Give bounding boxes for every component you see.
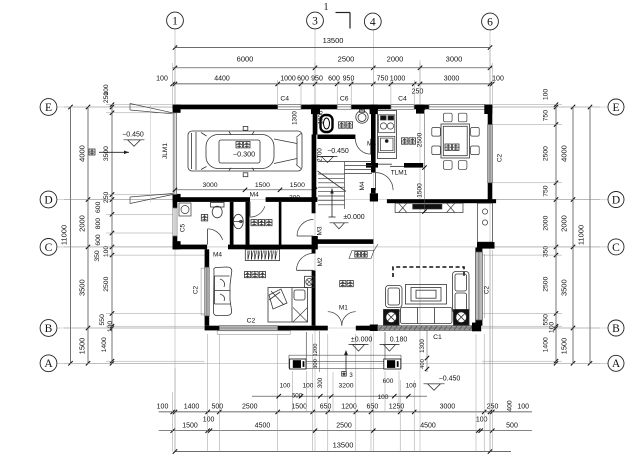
svg-text:C4: C4 [398, 95, 407, 102]
svg-text:2500: 2500 [336, 422, 352, 429]
window C4 kitchen north [391, 105, 414, 110]
wall C right chunk [477, 242, 495, 249]
porch extension verticals [292, 371, 399, 412]
garage interior dim 3000/1500/1500 [173, 182, 317, 201]
wall bedroom south B [205, 326, 317, 331]
svg-text:400: 400 [420, 359, 426, 369]
svg-text:3000: 3000 [446, 55, 463, 64]
svg-text:250: 250 [412, 89, 424, 96]
svg-text:750: 750 [543, 110, 550, 122]
wall garage south D [173, 197, 318, 202]
door M4 bath [208, 229, 223, 245]
sofa three-seat [398, 308, 455, 324]
svg-text:2000: 2000 [560, 215, 569, 232]
svg-text:100: 100 [157, 404, 169, 411]
svg-text:A: A [612, 358, 621, 370]
duct shaft east [478, 203, 493, 242]
svg-text:4: 4 [370, 16, 376, 28]
wall public WC south [317, 135, 355, 140]
svg-text:100: 100 [517, 404, 529, 411]
section mark 1 [324, 2, 351, 29]
label dining [445, 144, 451, 150]
coffee table [406, 285, 447, 305]
svg-text:2500: 2500 [103, 276, 110, 291]
wall bath east [230, 202, 234, 245]
right fine chain [543, 89, 559, 366]
svg-text:C4: C4 [280, 95, 289, 102]
svg-text:TLM1: TLM1 [391, 170, 408, 177]
porch side vertical dims [313, 330, 429, 372]
grid bubble 6 [482, 13, 499, 30]
window C5 [173, 208, 177, 236]
top fine dimension chain [156, 76, 504, 96]
porch arrow [342, 350, 354, 379]
toilet family bath [211, 203, 225, 218]
svg-text:±0.000: ±0.000 [343, 214, 364, 221]
grid axis lines [57, 29, 608, 451]
svg-text:−0.300: −0.300 [233, 150, 255, 159]
svg-text:550: 550 [99, 314, 106, 326]
grid bubble E right [608, 99, 624, 115]
svg-text:−0.450: −0.450 [439, 375, 461, 382]
svg-text:2500: 2500 [543, 276, 550, 291]
svg-text:1: 1 [172, 15, 178, 27]
svg-text:100: 100 [549, 322, 556, 334]
svg-text:500: 500 [506, 422, 518, 429]
basin lobby fixture [233, 214, 243, 228]
svg-text:100: 100 [103, 246, 110, 258]
svg-text:2700: 2700 [317, 148, 324, 162]
window C1 living south [378, 326, 472, 331]
svg-text:C6: C6 [340, 95, 349, 102]
svg-text:100: 100 [378, 394, 389, 401]
kitchen sink [379, 136, 395, 152]
top extension lines [173, 44, 493, 104]
svg-text:D: D [44, 194, 52, 206]
window C2 bedroom west [205, 267, 210, 316]
stairs [318, 162, 373, 210]
svg-text:100: 100 [303, 383, 314, 390]
dimension 11000 left [60, 105, 73, 366]
svg-text:650: 650 [367, 404, 379, 411]
svg-text:100: 100 [406, 383, 417, 390]
svg-text:100: 100 [543, 89, 550, 101]
svg-text:2000: 2000 [387, 55, 404, 64]
label garage [236, 142, 242, 148]
svg-text:13500: 13500 [323, 36, 344, 45]
svg-text:4500: 4500 [255, 422, 271, 429]
svg-text:100: 100 [476, 417, 488, 424]
svg-text:4000: 4000 [78, 145, 87, 162]
dimension 13500 top [173, 36, 492, 50]
wall living east [475, 248, 482, 326]
svg-text:C2: C2 [193, 285, 200, 294]
curtain wall [317, 239, 373, 244]
svg-text:400: 400 [507, 400, 514, 412]
svg-text:750: 750 [543, 185, 550, 197]
svg-text:1400: 1400 [184, 404, 200, 411]
wall kitchen west [370, 105, 378, 202]
window C2 dining east [488, 125, 493, 183]
wall dining east [488, 105, 493, 200]
svg-text:250: 250 [103, 192, 110, 204]
wall west garage [173, 105, 181, 250]
round basin public WC [356, 110, 368, 124]
door M1 entry [328, 312, 356, 326]
svg-text:3000: 3000 [202, 182, 217, 189]
svg-text:−0.450: −0.450 [122, 131, 144, 138]
svg-text:1500: 1500 [417, 183, 424, 198]
svg-text:±0.000: ±0.000 [351, 336, 372, 343]
svg-text:C2: C2 [484, 285, 491, 294]
dimension 13500 bottom [173, 441, 511, 454]
level -0.450 stairhall [318, 148, 349, 163]
planter bay south of dining [395, 203, 463, 212]
window C2 living east [475, 252, 484, 320]
svg-text:800: 800 [95, 218, 102, 230]
svg-text:950: 950 [343, 76, 355, 83]
right extension lines [482, 105, 600, 364]
grid bubble 4 [364, 13, 381, 30]
svg-text:3: 3 [312, 15, 318, 27]
svg-text:C: C [612, 242, 620, 254]
svg-text:500: 500 [211, 404, 223, 411]
grid bubble D left [40, 191, 57, 208]
plant stand right [454, 310, 470, 326]
dining interior dims 2500/1500 [417, 107, 427, 214]
label public WC [339, 122, 345, 128]
label bath [201, 215, 207, 221]
svg-text:750: 750 [377, 76, 389, 83]
wall grid3 vertical [312, 105, 318, 202]
svg-text:100: 100 [156, 76, 168, 83]
sill west [201, 268, 205, 315]
driveway ramp [130, 104, 173, 204]
garage door JLM1 [173, 113, 176, 195]
svg-text:1250: 1250 [389, 404, 405, 411]
porch mini dims [252, 377, 427, 401]
plant stand left [384, 310, 400, 326]
svg-text:300: 300 [313, 359, 319, 369]
dining chairs [432, 113, 479, 169]
kitchen counter [378, 111, 397, 159]
svg-text:4500: 4500 [420, 422, 436, 429]
door M4 garage [250, 202, 265, 218]
left extension lines [64, 105, 205, 364]
label tools room [251, 220, 257, 226]
svg-text:1500: 1500 [560, 338, 569, 355]
svg-text:C2: C2 [497, 153, 504, 162]
window dining north [429, 105, 486, 110]
svg-text:C5: C5 [180, 223, 187, 232]
svg-text:3000: 3000 [444, 76, 460, 83]
svg-text:600: 600 [95, 201, 102, 213]
bedroom bed [268, 288, 308, 323]
grid bubble B left [40, 320, 57, 337]
svg-text:M1: M1 [339, 304, 348, 311]
grid bubble A left [40, 355, 57, 372]
svg-text:2500: 2500 [242, 404, 258, 411]
wall kitchen south + TLM1 [366, 163, 423, 168]
svg-text:E: E [45, 102, 52, 114]
svg-text:1500: 1500 [78, 338, 87, 355]
wall north E [173, 105, 493, 110]
label kitchen [402, 138, 408, 144]
svg-text:1400: 1400 [543, 337, 550, 352]
svg-text:3200: 3200 [338, 383, 353, 390]
armchair left [386, 286, 403, 308]
svg-text:1200: 1200 [313, 344, 319, 357]
svg-text:−0.450: −0.450 [327, 148, 349, 155]
svg-text:2500: 2500 [543, 146, 550, 161]
wall grid3 foyer segment [312, 249, 316, 325]
squat toilet public WC [321, 115, 333, 132]
svg-text:350: 350 [543, 246, 550, 258]
grid bubble C right [608, 239, 624, 255]
svg-text:M4: M4 [213, 252, 222, 259]
corner column living SE [472, 323, 481, 332]
wall dining south D [387, 199, 496, 203]
grid bubble A right [608, 355, 624, 371]
wall bedroom west [205, 249, 210, 325]
svg-text:C2: C2 [247, 318, 256, 325]
label foyer [340, 281, 346, 287]
svg-text:1000: 1000 [280, 76, 296, 83]
svg-text:M2: M2 [317, 257, 324, 266]
svg-text:600: 600 [292, 393, 303, 400]
right mid chain 4000/2000/3500/1500 [560, 105, 576, 366]
car in garage [188, 126, 302, 176]
svg-text:1000: 1000 [390, 76, 406, 83]
window C6 north [337, 105, 351, 110]
svg-text:A: A [44, 358, 53, 370]
svg-text:600: 600 [383, 378, 394, 385]
svg-text:JLM1: JLM1 [162, 143, 169, 159]
level -0.450 ramp [122, 131, 144, 146]
svg-text:1500: 1500 [291, 404, 307, 411]
svg-text:1300: 1300 [419, 339, 426, 353]
svg-text:11000: 11000 [60, 225, 69, 245]
svg-text:1500: 1500 [255, 182, 270, 189]
wall C row [173, 245, 318, 250]
porch slab and steps [289, 332, 401, 369]
svg-text:2000: 2000 [78, 215, 87, 232]
svg-text:3500: 3500 [560, 279, 569, 296]
svg-text:1400: 1400 [101, 337, 108, 352]
svg-text:1500: 1500 [290, 182, 305, 189]
svg-text:600: 600 [328, 76, 340, 83]
sill south [217, 331, 290, 335]
svg-text:1300: 1300 [292, 111, 299, 125]
bottom fine chain [157, 400, 532, 414]
svg-text:950: 950 [311, 76, 323, 83]
svg-text:4000: 4000 [560, 145, 569, 162]
window C2 bedroom south [219, 326, 277, 331]
svg-text:6000: 6000 [237, 55, 254, 64]
tv dashed line [393, 267, 464, 277]
wardrobe [245, 250, 279, 261]
left fine chain [94, 84, 114, 365]
svg-text:C1: C1 [433, 334, 442, 341]
svg-text:M3: M3 [317, 226, 324, 235]
door M4 tools room [0, 0, 1, 1]
svg-text:300: 300 [289, 194, 300, 201]
kitchen stove [379, 115, 395, 133]
bottom mid chain 1500/100/4500/2500/4500/100/500 [159, 417, 532, 433]
svg-text:C: C [45, 242, 53, 254]
door M3 [297, 220, 314, 237]
sliding door TLM1 [378, 164, 404, 166]
wall tools room east [279, 202, 282, 245]
grid bubble D right [608, 192, 624, 208]
svg-text:1: 1 [324, 2, 329, 13]
corner columns [173, 105, 493, 250]
svg-text:D: D [612, 194, 620, 206]
svg-text:B: B [45, 323, 53, 335]
svg-text:100: 100 [280, 383, 291, 390]
svg-text:B: B [612, 323, 620, 335]
washing machine [179, 203, 191, 216]
svg-text:3500: 3500 [103, 146, 110, 161]
svg-text:2000: 2000 [543, 215, 550, 230]
svg-text:M4: M4 [250, 192, 259, 199]
wall foyer south B [316, 325, 379, 332]
svg-text:600: 600 [297, 76, 309, 83]
svg-text:3500: 3500 [78, 279, 87, 296]
grid bubble 3 [307, 12, 324, 29]
grid bubble 1 [167, 12, 184, 29]
dining table [441, 124, 470, 158]
svg-text:1300: 1300 [318, 110, 325, 124]
svg-text:1200: 1200 [341, 404, 357, 411]
porch column right [384, 359, 401, 369]
label elder room [245, 272, 251, 278]
grid bubble E left [40, 99, 57, 116]
sofa right [453, 272, 470, 313]
svg-text:2500: 2500 [417, 132, 424, 147]
door M4 kitchen [376, 173, 394, 191]
door M4 public WC [355, 139, 370, 155]
svg-text:6: 6 [487, 16, 493, 28]
svg-text:11000: 11000 [577, 225, 586, 245]
curtain wall tag [349, 244, 378, 259]
svg-text:13500: 13500 [333, 441, 354, 450]
left mid chain 4000/2000/3500/1500 [78, 105, 91, 366]
svg-text:300: 300 [317, 377, 324, 388]
stair arrow [329, 189, 336, 218]
svg-text:100: 100 [203, 417, 215, 424]
grid bubble C left [40, 239, 57, 256]
level 0.000 stairhall [330, 214, 365, 229]
svg-text:0.180: 0.180 [390, 336, 408, 343]
svg-text:100: 100 [103, 84, 110, 96]
level 0.000 foyer [349, 336, 373, 351]
svg-text:M4: M4 [359, 181, 366, 190]
grid bubble B right [608, 320, 624, 336]
svg-text:4400: 4400 [214, 76, 230, 83]
ramp up arrow [89, 149, 129, 155]
svg-text:1500: 1500 [182, 422, 198, 429]
svg-text:650: 650 [320, 404, 332, 411]
window C4 garage north [278, 105, 301, 110]
dimension row 6000/2500/2000/3000 [173, 55, 493, 71]
svg-text:100: 100 [492, 76, 504, 83]
bedroom couch [213, 267, 231, 316]
porch column left [290, 359, 306, 369]
wall tools room west [246, 202, 250, 245]
door M2 [297, 253, 314, 270]
dimension 11000 right [577, 105, 593, 366]
svg-text:350: 350 [94, 250, 101, 262]
svg-text:E: E [612, 102, 619, 114]
level 0.180 [380, 336, 408, 351]
svg-text:3000: 3000 [440, 404, 456, 411]
svg-text:2500: 2500 [338, 55, 355, 64]
nightstand lamp [305, 276, 315, 287]
svg-text:600: 600 [95, 234, 102, 246]
bottom extension lines [173, 250, 493, 452]
level -0.450 porch [424, 375, 461, 390]
